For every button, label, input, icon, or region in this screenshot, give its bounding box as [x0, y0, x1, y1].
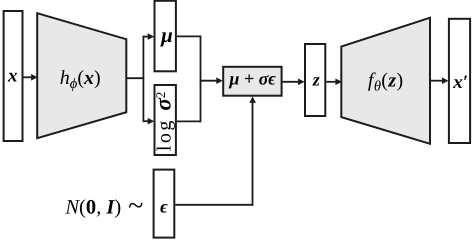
arrow decoder to x'	[430, 77, 449, 84]
wire mu out	[177, 35, 201, 37]
latent box z	[305, 44, 325, 116]
svg-text:x: x	[7, 65, 18, 86]
svg-text:z: z	[312, 70, 320, 90]
svg-text:μ: μ	[160, 23, 173, 47]
epsilon box	[154, 170, 175, 238]
svg-text:μ + σϵ: μ + σϵ	[228, 68, 276, 88]
arrow into mu+sigma*eps box	[200, 77, 223, 84]
arrow z to decoder	[326, 79, 342, 86]
arrow to z box	[283, 79, 305, 86]
svg-text:x′: x′	[452, 72, 468, 93]
encoder trapezoid h_phi(x)	[37, 13, 126, 138]
wire join vertical	[200, 36, 202, 123]
reparameterization box mu + sigma*epsilon	[223, 67, 281, 96]
wire log sigma out	[177, 120, 201, 122]
input box x	[4, 11, 23, 141]
svg-text:log σ2: log σ2	[150, 89, 175, 151]
decoder trapezoid f_theta(z)	[341, 18, 430, 144]
svg-text:hϕ(x): hϕ(x)	[60, 67, 101, 92]
arrow x to encoder	[24, 74, 38, 81]
log sigma^2 box	[150, 85, 176, 155]
svg-text:ϵ: ϵ	[160, 197, 168, 217]
wire split vertical	[142, 36, 144, 122]
mu box	[155, 1, 176, 72]
wire epsilon out	[175, 204, 253, 206]
svg-text:fθ(z): fθ(z)	[368, 69, 404, 94]
wire encoder output	[126, 77, 144, 79]
arrow to log sigma^2 box	[143, 118, 155, 125]
output box x'	[449, 19, 470, 143]
arrow to mu box	[143, 33, 155, 40]
wire epsilon up with arrow	[249, 96, 256, 205]
